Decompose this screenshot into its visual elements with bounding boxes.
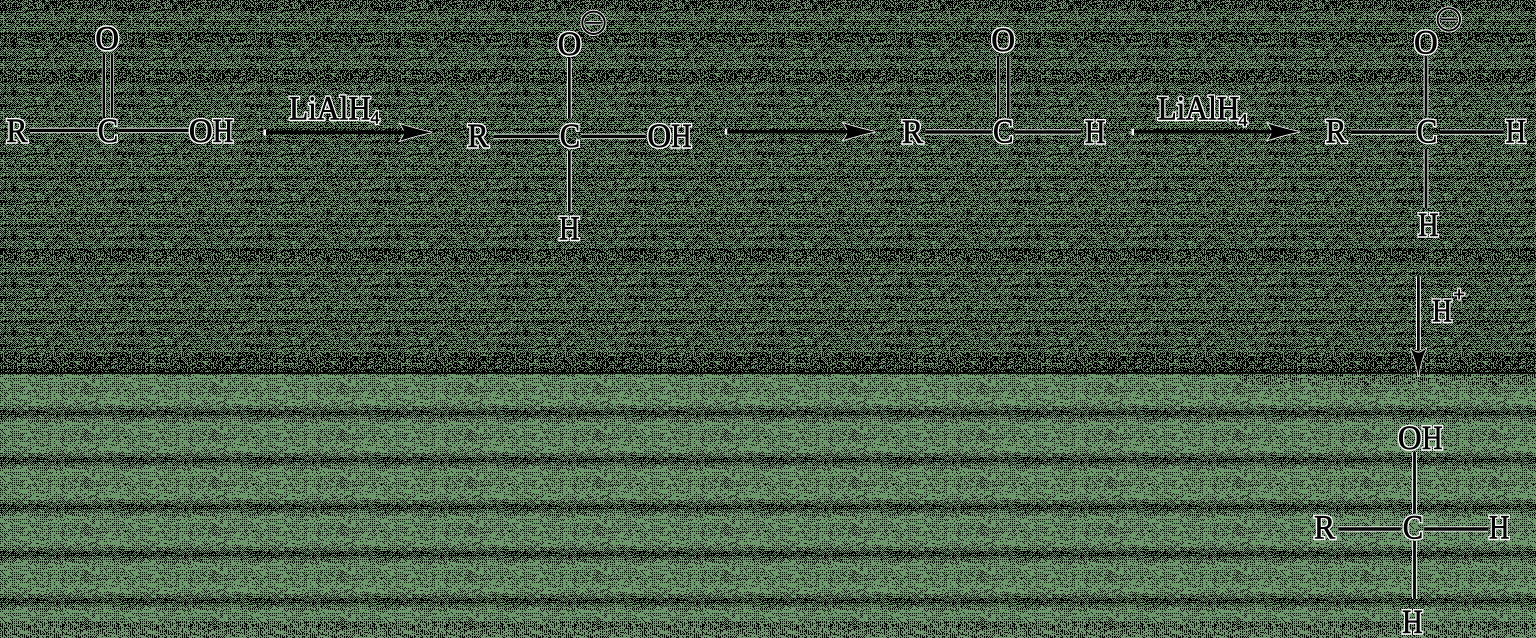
atom R5: [1314, 510, 1336, 547]
svg-text:4: 4: [1239, 110, 1248, 130]
vertical arrow H+: [1410, 276, 1465, 376]
atom O of OH1: [189, 113, 213, 150]
svg-text:O: O: [189, 113, 213, 150]
atom H of OH1: [213, 113, 234, 150]
atom C5: [1403, 510, 1423, 547]
svg-text:H: H: [1418, 207, 1439, 244]
atom R1: [6, 113, 28, 150]
svg-text:R: R: [902, 114, 924, 151]
svg-text:H: H: [559, 210, 580, 247]
bond C2-O(H): [581, 134, 646, 139]
atom R3: [902, 114, 924, 151]
bond R2-C2: [494, 134, 559, 139]
extra dark strip y248-260: [0, 248, 1536, 260]
separator dark line: [0, 372, 1536, 374]
svg-text:O: O: [1398, 420, 1422, 457]
svg-text:O: O: [558, 26, 582, 63]
atom H of OH5: [1422, 420, 1443, 457]
atom C2: [560, 118, 580, 155]
extra dark strip top: [0, 0, 1536, 8]
svg-text:4: 4: [371, 108, 380, 128]
dither zone B: [0, 374, 1536, 638]
extra dark strip y70-80: [0, 70, 1536, 80]
double bond C1=O1: [102, 55, 106, 118]
svg-text:LiAlH: LiAlH: [289, 91, 371, 128]
svg-text:O: O: [95, 21, 119, 58]
svg-text:R: R: [6, 113, 28, 150]
atom O1: [95, 21, 119, 58]
bond R5-C5: [1338, 526, 1401, 531]
dither zone A: [0, 0, 1536, 374]
bond C4-H4: [1440, 130, 1504, 135]
svg-text:C: C: [1417, 113, 1437, 150]
molecule 2: tetrahedral alkoxide with OH: [467, 12, 691, 248]
charge circle (minus) 4: [1438, 8, 1460, 30]
svg-text:H: H: [1489, 510, 1510, 547]
svg-text:H: H: [1432, 294, 1452, 330]
svg-text:R: R: [1325, 114, 1347, 151]
label H+: [1432, 294, 1452, 330]
svg-text:H: H: [1505, 114, 1526, 151]
atom O3: [991, 22, 1015, 59]
molecule 5: R-CH2-OH: [1314, 420, 1510, 638]
svg-text:O: O: [647, 118, 671, 155]
extra dark strip y33-43: [0, 33, 1536, 43]
atom O of OH5: [1398, 420, 1422, 457]
bond O4-C4: [1424, 57, 1429, 116]
svg-text:H: H: [1402, 604, 1423, 638]
bond C3-H3: [1015, 129, 1082, 134]
arrow 4 shaft: [1416, 276, 1421, 350]
atom H2 (bottom): [559, 210, 580, 247]
svg-text:C: C: [993, 113, 1013, 150]
atom O of OH2: [647, 118, 671, 155]
atom C1: [98, 113, 118, 150]
svg-text:O: O: [991, 22, 1015, 59]
bond O2-C2: [567, 58, 572, 119]
molecule 1: R-COOH: [6, 21, 233, 151]
atom H of OH2: [671, 118, 692, 155]
bond C2-H2: [567, 151, 572, 212]
bond O5-C5: [1412, 452, 1417, 514]
atom R4: [1325, 114, 1347, 151]
svg-text:H: H: [1422, 420, 1443, 457]
svg-text:O: O: [1414, 25, 1438, 62]
double bond C3=O3: [996, 57, 1000, 118]
bond C5-H5b: [1412, 541, 1417, 599]
arrow 4 head: [1410, 348, 1427, 377]
svg-text:H: H: [213, 113, 234, 150]
arrow 3: [1132, 90, 1300, 140]
atom H5 (right): [1489, 510, 1510, 547]
bond R1-C1: [30, 128, 98, 133]
atom O2: [558, 26, 582, 63]
atom R2: [467, 118, 489, 155]
molecule 4: tetrahedral alkoxide with H: [1325, 8, 1526, 244]
svg-text:H: H: [1085, 114, 1106, 151]
atom C4: [1417, 113, 1437, 150]
atom C3: [993, 113, 1013, 150]
dither bottom strip: [0, 622, 1536, 638]
extra dark strip right below line: [1240, 375, 1536, 385]
atom O4: [1414, 25, 1438, 62]
svg-text:C: C: [98, 113, 118, 150]
svg-text:C: C: [560, 118, 580, 155]
bond C5-H5: [1424, 526, 1488, 531]
svg-text:+: +: [1454, 284, 1465, 306]
atom H5b (bottom): [1402, 604, 1423, 638]
svg-text:H: H: [671, 118, 692, 155]
svg-text:R: R: [1314, 510, 1336, 547]
arrow 2: [725, 123, 875, 140]
arrow 1: [264, 91, 432, 141]
svg-text:LiAlH: LiAlH: [1158, 90, 1240, 127]
extra dark strip y352-372: [0, 352, 1536, 372]
svg-text:R: R: [467, 118, 489, 155]
bond C1-O(H): [119, 128, 189, 133]
bond R3-C3: [925, 129, 992, 134]
bond C4-H4b: [1424, 149, 1429, 208]
charge circle (minus) 2: [582, 12, 604, 34]
atom H4b (bottom): [1418, 207, 1439, 244]
bond R4-C4: [1351, 130, 1416, 135]
atom H4 (right): [1505, 114, 1526, 151]
molecule 3: R-CHO: [902, 22, 1105, 151]
atom H3: [1085, 114, 1106, 151]
